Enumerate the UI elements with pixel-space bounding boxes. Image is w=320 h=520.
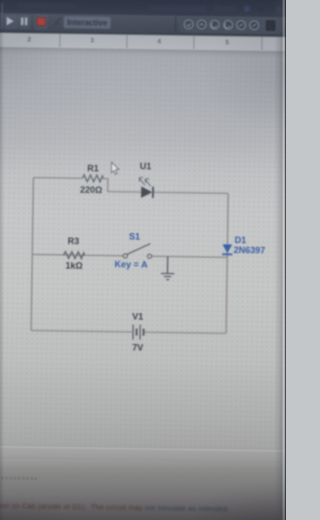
svg-text:220Ω: 220Ω	[80, 185, 102, 195]
svg-text:Interactive: Interactive	[67, 18, 108, 28]
svg-text:V1: V1	[132, 311, 143, 321]
svg-text:R1: R1	[87, 163, 99, 173]
svg-text:2N6397: 2N6397	[234, 245, 266, 255]
svg-text:R3: R3	[68, 236, 80, 246]
svg-text:7V: 7V	[132, 342, 143, 352]
svg-text:1kΩ: 1kΩ	[65, 260, 82, 270]
svg-text:Key = A: Key = A	[115, 259, 149, 269]
svg-text:U1: U1	[140, 161, 152, 171]
svg-text:D1: D1	[235, 235, 247, 245]
svg-text:S1: S1	[129, 231, 140, 241]
